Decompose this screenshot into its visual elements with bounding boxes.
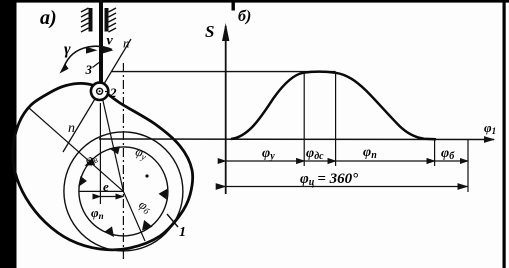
radial line to max-radius point xyxy=(29,108,123,191)
gamma arc arrowheads at rod xyxy=(86,47,98,54)
svg-text:3: 3 xyxy=(85,62,93,77)
svg-text:φц = 360°: φц = 360° xyxy=(300,171,358,188)
inner circle with sector arrows xyxy=(79,147,168,236)
photo border frame: top line xyxy=(0,0,509,3)
dimension row 1: phi_u segment xyxy=(226,160,305,162)
svg-text:φу: φу xyxy=(133,144,149,163)
max displacement line xyxy=(112,71,336,73)
vertical at end of return xyxy=(434,139,436,166)
svg-text:φп: φп xyxy=(91,205,104,221)
roller 2 xyxy=(91,83,108,100)
svg-text:2: 2 xyxy=(109,85,117,100)
follower axis thin line below roller xyxy=(99,103,101,204)
svg-text:φ1: φ1 xyxy=(484,120,496,136)
guide left bar xyxy=(89,8,93,32)
svg-text:φп: φп xyxy=(363,145,377,161)
dwell boundary vertical left xyxy=(303,72,305,166)
dimension row 1: phi_p segment xyxy=(336,160,435,162)
dimension row 1: phi_b segment xyxy=(435,160,468,162)
photo border frame: right rule xyxy=(503,0,506,268)
sector arc arrowheads on inner circle xyxy=(78,146,168,237)
photo border frame: left black band xyxy=(0,0,17,268)
svg-text:φб: φб xyxy=(136,196,155,216)
guide hatching right xyxy=(109,8,117,32)
radial line to roller center xyxy=(101,92,123,191)
phi axis (baseline) xyxy=(99,138,494,141)
top divider tick between a) and b) panels xyxy=(232,0,235,11)
svg-text:б): б) xyxy=(238,8,251,25)
dwell boundary vertical right xyxy=(335,72,337,166)
guide hatching left xyxy=(81,8,89,32)
svg-text:n: n xyxy=(68,121,75,136)
vertical dash-dot centre line of cam xyxy=(122,63,124,262)
svg-text:1: 1 xyxy=(179,225,186,240)
guide right bar xyxy=(105,8,109,32)
ink speck xyxy=(145,174,148,177)
follower rod 3 xyxy=(99,0,103,92)
svg-text:φб: φб xyxy=(441,146,455,162)
dimension row 2: phi_c = 360 xyxy=(226,186,468,188)
svg-text:γ: γ xyxy=(64,41,71,58)
radial line lower right xyxy=(123,191,145,241)
cam profile 1 (thick) xyxy=(13,83,193,249)
eccentricity dimension e xyxy=(100,196,123,198)
svg-text:φдс: φдс xyxy=(306,146,324,162)
radial line left (horizontal) xyxy=(79,190,123,192)
displacement curve xyxy=(231,72,436,140)
dimension row 1: phi_ds segment xyxy=(304,160,335,162)
outer base circle xyxy=(64,132,183,251)
normal line n-n xyxy=(63,39,131,152)
S axis xyxy=(225,26,227,194)
svg-text:e: e xyxy=(103,179,109,194)
svg-text:S: S xyxy=(205,22,214,41)
pressure angle gamma arc xyxy=(64,46,112,67)
svg-text:φу: φу xyxy=(262,146,275,162)
svg-text:a): a) xyxy=(40,7,57,29)
svg-text:v: v xyxy=(107,34,114,49)
vertical at cycle end xyxy=(467,139,469,192)
label 1 with leader tick xyxy=(167,214,178,227)
label 2 with leader xyxy=(105,91,109,93)
